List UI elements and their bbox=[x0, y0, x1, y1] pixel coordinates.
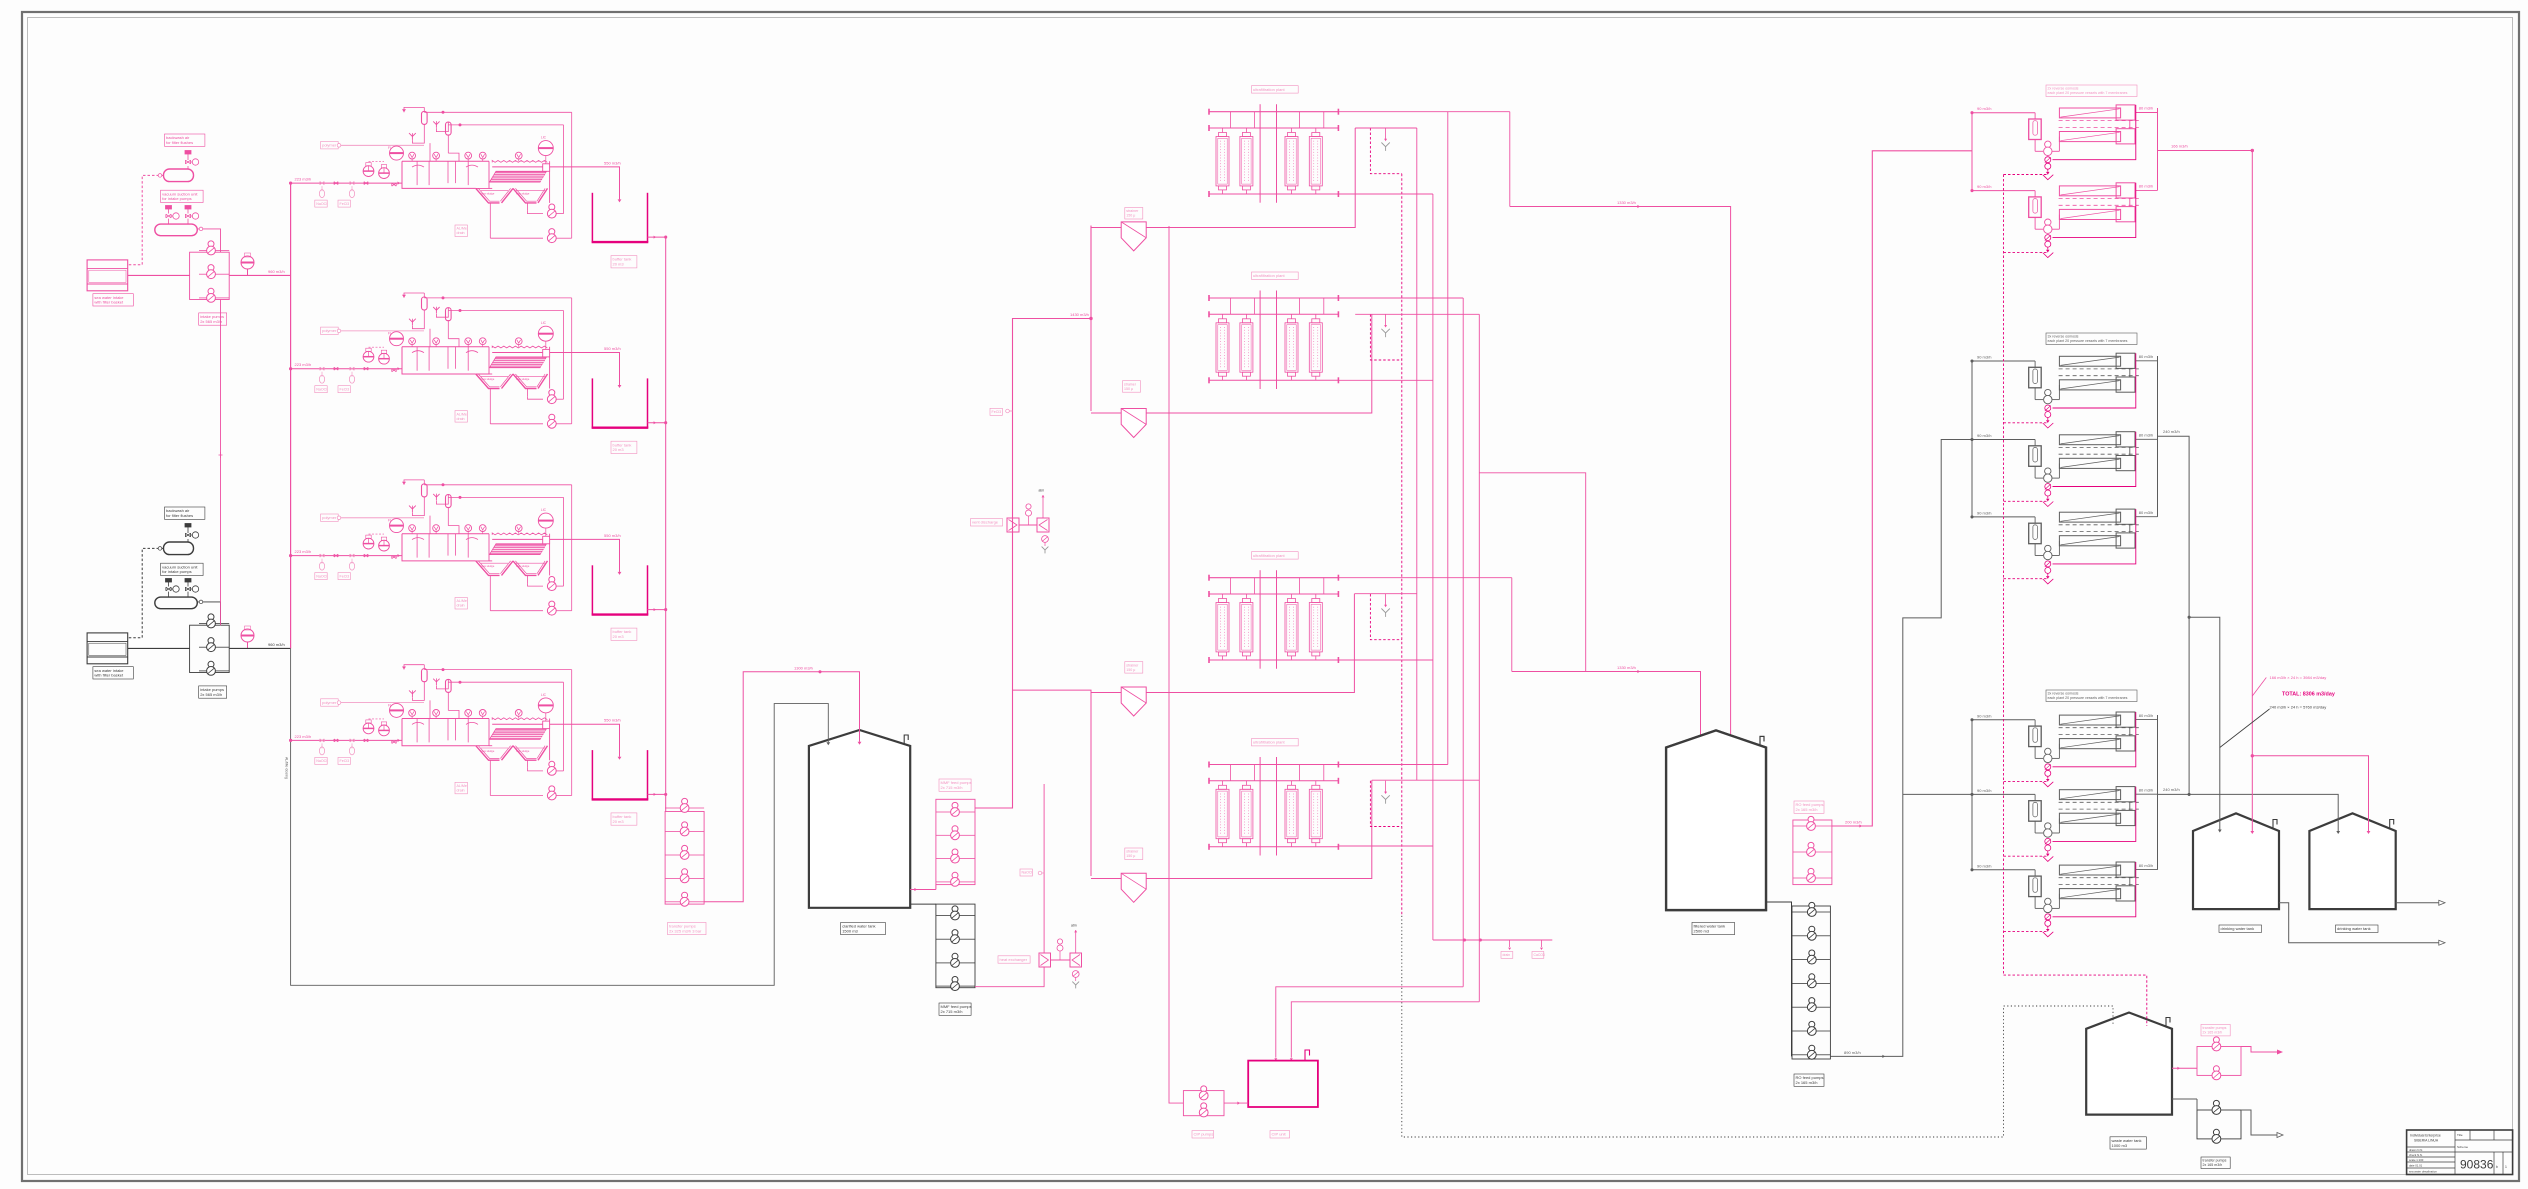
svg-text:20 m3: 20 m3 bbox=[613, 262, 625, 267]
basin inlet flow meter bbox=[390, 332, 404, 346]
svg-text:CaCO3: CaCO3 bbox=[1534, 953, 1545, 957]
permeate out to collector bbox=[2135, 438, 2158, 440]
air buffer vessel for filter flush bbox=[164, 169, 194, 182]
dosing pump unit 1 bbox=[363, 723, 374, 734]
basin inlet flow meter bbox=[390, 519, 404, 533]
permeate out to collector bbox=[2135, 516, 2158, 518]
UF interconnect bbox=[1479, 473, 1585, 672]
wire riser to strainer2 bbox=[1091, 412, 1121, 414]
concentrate wire bbox=[2053, 712, 2136, 767]
concentrate control valves bbox=[2045, 914, 2051, 920]
air buffer vessel for filter flush bbox=[164, 542, 194, 555]
UF concentrate dashed branch bbox=[1370, 128, 1401, 174]
svg-text:Title: Title bbox=[2457, 1133, 2463, 1137]
concentrate funnel bbox=[2047, 926, 2049, 929]
permeate collector dashes bbox=[2059, 446, 2139, 448]
recycle header 1 bbox=[424, 484, 571, 486]
svg-text:atm: atm bbox=[1071, 924, 1077, 928]
flotation scraper zigzag bbox=[492, 718, 547, 720]
svg-text:drinking water tank: drinking water tank bbox=[2221, 926, 2255, 931]
intake discharge main bbox=[229, 647, 290, 649]
svg-text:for intake pumps: for intake pumps bbox=[162, 569, 192, 574]
svg-text:ultrafiltration plant: ultrafiltration plant bbox=[1253, 553, 1285, 558]
UF top header bbox=[1209, 111, 1338, 113]
flotation tank right wall bbox=[549, 167, 551, 203]
RO feed black discharge trunk bbox=[1830, 440, 1972, 1057]
intake flow meter bbox=[241, 256, 254, 269]
high pressure pump bbox=[2034, 466, 2036, 478]
cartridge filter bbox=[2029, 801, 2042, 822]
svg-text:max sludge: max sludge bbox=[481, 192, 495, 196]
recycle header 2 bbox=[448, 124, 563, 126]
concentrate funnel bbox=[2047, 418, 2049, 421]
UF concentrate dashed branch bbox=[1370, 781, 1401, 827]
buffer tank (open top) bbox=[591, 565, 593, 614]
svg-text:550 m3/h: 550 m3/h bbox=[604, 346, 621, 351]
svg-text:90 m3/h: 90 m3/h bbox=[1977, 355, 1991, 360]
buffer tank outlet wire bbox=[648, 236, 666, 238]
svg-text:2x 715 m3/h: 2x 715 m3/h bbox=[941, 785, 963, 790]
polymer dosing label bbox=[321, 142, 339, 149]
svg-text:drinking water tank: drinking water tank bbox=[2337, 926, 2371, 931]
membrane vessel 1 bbox=[2059, 790, 2120, 800]
UF top header bbox=[1209, 297, 1338, 299]
sea water intake box bbox=[87, 260, 128, 291]
membrane vessel 2 bbox=[2059, 132, 2120, 142]
concentrate wire bbox=[2053, 432, 2136, 487]
label waste transfer pumps pink bbox=[2201, 1024, 2230, 1036]
NaOCl dosing at backwash riser bbox=[1020, 869, 1032, 876]
RO train feed wire bbox=[1972, 190, 2035, 192]
svg-text:for filter flushes: for filter flushes bbox=[166, 140, 193, 145]
high pressure pump bbox=[2034, 388, 2036, 400]
MMF feed pumps black (4x) bbox=[952, 906, 958, 912]
strainer 3 wires bbox=[1091, 692, 1121, 694]
concentrate dashed to waste header bbox=[2004, 856, 2048, 861]
concentrate wire bbox=[2053, 787, 2136, 842]
UF center distribution pipes bbox=[1259, 757, 1261, 856]
polymer feed wire bbox=[341, 702, 424, 704]
vessel interconnect bbox=[2129, 198, 2131, 207]
sludge pump 1 bbox=[549, 390, 555, 396]
svg-text:max sludge: max sludge bbox=[516, 749, 530, 753]
svg-text:FI: FI bbox=[388, 332, 391, 336]
sludge hopper 2 bbox=[513, 374, 537, 389]
dosing point FeCl3 bbox=[350, 182, 354, 185]
flotation scraper zigzag bbox=[492, 346, 547, 348]
svg-text:CIP unit: CIP unit bbox=[1272, 1132, 1287, 1137]
svg-text:166 m3/h × 24 h = 3984 m3/day: 166 m3/h × 24 h = 3984 m3/day bbox=[2270, 675, 2327, 680]
saturator feed drop bbox=[429, 700, 431, 718]
vacuum unit valves bbox=[166, 206, 172, 210]
UF top header bbox=[1209, 577, 1338, 579]
svg-text:max sludge: max sludge bbox=[516, 192, 530, 196]
UF second header bbox=[1209, 780, 1338, 782]
transfer discharge to clarified tank bbox=[704, 672, 859, 902]
sea water intake box bbox=[87, 633, 128, 664]
svg-text:LIC: LIC bbox=[541, 693, 547, 697]
saturation vessel 1 bbox=[422, 669, 428, 682]
svg-text:AL/Me: AL/Me bbox=[457, 412, 467, 416]
svg-text:550 m3/h: 550 m3/h bbox=[604, 533, 621, 538]
concentrate funnel bbox=[2047, 169, 2049, 172]
svg-text:3x reverse osmosis: 3x reverse osmosis bbox=[2048, 335, 2079, 339]
vacuum buffer vessel bbox=[155, 597, 198, 609]
sludge pump 1 bbox=[549, 577, 555, 583]
svg-text:polymer: polymer bbox=[322, 143, 337, 148]
UF product line lower to filtered tank bbox=[1511, 578, 1513, 672]
svg-text:1: 1 bbox=[2505, 1165, 2507, 1169]
buffer tank (open top) bbox=[591, 750, 593, 799]
CIP supply wires bbox=[1276, 987, 1463, 1058]
recycle right risers bbox=[563, 497, 565, 586]
buffer tank outlet wire bbox=[648, 609, 666, 611]
svg-text:NaOCl: NaOCl bbox=[316, 387, 327, 391]
svg-text:90 m3/h: 90 m3/h bbox=[1977, 433, 1991, 438]
RO pink product wire bbox=[2158, 150, 2253, 152]
transfer pump bank from buffer tanks (frame) bbox=[665, 812, 704, 905]
saturator feed drop bbox=[429, 329, 431, 347]
svg-text:1500 m3: 1500 m3 bbox=[842, 928, 858, 933]
flotation scraper zigzag bbox=[492, 161, 547, 163]
svg-text:polymer: polymer bbox=[322, 515, 337, 520]
saturation vessel 2 bbox=[446, 679, 452, 692]
svg-text:150 μ: 150 μ bbox=[1126, 668, 1135, 672]
svg-text:2x reverse osmosis: 2x reverse osmosis bbox=[2048, 87, 2079, 91]
svg-text:2500 m3: 2500 m3 bbox=[1694, 928, 1710, 933]
treated water outlet to buffer tank bbox=[550, 167, 620, 200]
svg-text:LIC: LIC bbox=[541, 508, 547, 512]
concentrate funnel bbox=[2047, 851, 2049, 854]
waste black discharge bbox=[2241, 1110, 2277, 1135]
lamella pack (hatched) bbox=[490, 544, 547, 555]
UF feed main riser bbox=[975, 226, 1091, 808]
high pressure pump bbox=[2034, 544, 2036, 556]
svg-text:heat exchanger: heat exchanger bbox=[1000, 957, 1028, 962]
inline valve 1 bbox=[334, 367, 338, 370]
svg-text:LIC: LIC bbox=[541, 136, 547, 140]
svg-text:AL/Me: AL/Me bbox=[457, 599, 467, 603]
concentrate control valves bbox=[2045, 235, 2051, 241]
flotation water level line bbox=[492, 166, 543, 168]
flotation tank right wall bbox=[549, 353, 551, 389]
hopper drain wires bbox=[489, 575, 491, 610]
MMF feed pumps pink (4x) bbox=[952, 802, 958, 808]
svg-text:223 m3/h: 223 m3/h bbox=[295, 177, 312, 182]
svg-text:200 m3/h: 200 m3/h bbox=[1845, 820, 1862, 825]
RO train feed wire bbox=[1972, 719, 2035, 721]
inline valve 2 bbox=[364, 367, 368, 370]
svg-text:890 m3/h: 890 m3/h bbox=[1844, 1050, 1861, 1055]
svg-text:80 m3/h: 80 m3/h bbox=[2139, 354, 2153, 359]
svg-text:max sludge: max sludge bbox=[481, 749, 495, 753]
label buffer tank bbox=[611, 813, 637, 825]
svg-text:80 m3/h: 80 m3/h bbox=[2139, 433, 2153, 438]
vessel interconnect bbox=[2129, 447, 2131, 456]
svg-text:223 m3/h: 223 m3/h bbox=[295, 549, 312, 554]
svg-text:1000 m3: 1000 m3 bbox=[2112, 1143, 2128, 1148]
polymer feed wire bbox=[341, 144, 424, 146]
UF plant label bbox=[1252, 552, 1299, 559]
svg-text:80 m3/h: 80 m3/h bbox=[2139, 106, 2153, 111]
intake suction line bbox=[128, 647, 190, 649]
waste transfer pumps pink (frame) bbox=[2197, 1047, 2241, 1076]
concentrate funnel bbox=[2047, 247, 2049, 250]
permeate collector dashes bbox=[2059, 198, 2139, 200]
branch to drinking tank 1 bbox=[2189, 617, 2220, 829]
train feed pipe bbox=[291, 555, 402, 557]
svg-text:2x 165 m3/h: 2x 165 m3/h bbox=[1796, 1080, 1818, 1085]
saturation vessel 1 bbox=[422, 111, 428, 124]
basin internal walls and mixers bbox=[416, 534, 418, 558]
svg-text:550 m3/h: 550 m3/h bbox=[604, 160, 621, 165]
waste black inlet bbox=[2172, 1098, 2197, 1100]
sludge hopper 1 bbox=[476, 188, 500, 203]
svg-text:ultrafiltration plant: ultrafiltration plant bbox=[1253, 87, 1285, 92]
vessel interconnect bbox=[2129, 877, 2131, 886]
svg-text:20 m3: 20 m3 bbox=[613, 819, 625, 824]
hopper drain wires bbox=[489, 760, 491, 795]
product split to tank 2 bbox=[2252, 756, 2368, 831]
train feed pipe bbox=[291, 368, 402, 370]
wire vessel to intake box (dashed) bbox=[128, 175, 164, 264]
label waste water tank bbox=[2110, 1137, 2146, 1149]
recycle right risers bbox=[563, 125, 565, 214]
concentrate control valves bbox=[2045, 405, 2051, 411]
RO pink group label bbox=[2046, 85, 2137, 97]
sludge hopper 1 bbox=[476, 561, 500, 576]
concentrate dashed to waste header bbox=[2004, 175, 2048, 180]
clarified water tank bbox=[809, 730, 910, 908]
svg-text:vent discharge: vent discharge bbox=[972, 520, 999, 525]
svg-text:each plant 20 pressure vessels: each plant 20 pressure vessels with 7 me… bbox=[2048, 339, 2128, 343]
svg-text:223 m3/h: 223 m3/h bbox=[295, 362, 312, 367]
outlet box bbox=[543, 536, 550, 544]
hopper drain wires bbox=[489, 389, 491, 424]
RO gray group2 feed header bbox=[1971, 361, 1973, 517]
RO feed pumps black (7x) bbox=[1809, 902, 1815, 908]
basin inlet flow meter bbox=[390, 146, 404, 160]
permeate out to collector bbox=[2135, 869, 2158, 871]
RO feed pump bank black (frame) bbox=[1792, 906, 1830, 1059]
membrane vessel 1 bbox=[2059, 186, 2120, 196]
heat exchanger vent bbox=[1075, 930, 1077, 953]
inline valve 1 bbox=[334, 554, 338, 557]
svg-text:223 m3/h: 223 m3/h bbox=[295, 734, 312, 739]
sludge pump 1 bbox=[549, 761, 555, 767]
membrane vessel 2 bbox=[2059, 380, 2120, 390]
membrane vessel 2 bbox=[2059, 209, 2120, 219]
UF top header bbox=[1209, 764, 1338, 766]
label backwash air for filter flushes bbox=[165, 134, 205, 146]
saturation vessel 1 bbox=[422, 297, 428, 310]
svg-text:1330 m3/h: 1330 m3/h bbox=[1617, 200, 1636, 205]
label air sludge bbox=[455, 411, 467, 423]
svg-text:atm: atm bbox=[1039, 489, 1045, 493]
buffer tank collector riser bbox=[665, 237, 667, 811]
svg-text:90 m3/h: 90 m3/h bbox=[1977, 713, 1991, 718]
RO gray group 2 label bbox=[2046, 333, 2137, 345]
level transmitter LIC bbox=[538, 141, 553, 156]
svg-text:FeCl3: FeCl3 bbox=[340, 202, 350, 206]
svg-text:80 m3/h: 80 m3/h bbox=[2139, 184, 2153, 189]
tank outlet to RO pumps bbox=[1766, 902, 1792, 1056]
UF membrane modules (4x) bbox=[1216, 323, 1229, 372]
svg-text:polymer: polymer bbox=[322, 328, 337, 333]
heat exchanger valves bbox=[1057, 945, 1063, 951]
label transfer pumps bbox=[668, 922, 706, 934]
UF center distribution pipes bbox=[1259, 291, 1261, 390]
tank1 outfall wire bbox=[2279, 903, 2439, 943]
cartridge filter bbox=[2029, 876, 2042, 897]
concentrate wire bbox=[2053, 509, 2136, 564]
membrane vessel 2 bbox=[2059, 889, 2120, 899]
drain outfall 2 bbox=[1541, 940, 1543, 947]
UF concentrate dashed branch bbox=[1370, 594, 1401, 640]
saturator loop wires 1 bbox=[412, 310, 424, 329]
wire vacuum vessel to intake pump bank bbox=[197, 229, 220, 252]
recycle header 1 bbox=[424, 111, 571, 113]
UF drain header bbox=[1433, 939, 1552, 941]
CIP pump discharge bbox=[1224, 1102, 1248, 1104]
svg-text:max sludge: max sludge bbox=[516, 564, 530, 568]
svg-text:90 m3/h: 90 m3/h bbox=[1977, 788, 1991, 793]
svg-text:240 m3/h × 24 h = 5760 m3/day: 240 m3/h × 24 h = 5760 m3/day bbox=[2270, 705, 2327, 710]
svg-text:strainer: strainer bbox=[1126, 663, 1139, 667]
sludge hopper 2 bbox=[513, 188, 537, 203]
permeate collector dashes bbox=[2059, 368, 2139, 370]
dosing pump unit 2 bbox=[379, 725, 390, 736]
RO gray group2 product wire bbox=[2158, 436, 2190, 794]
membrane vessel 1 bbox=[2059, 108, 2120, 118]
RO gray group3 feed header bbox=[1971, 720, 1973, 870]
high pressure pump bbox=[2034, 217, 2036, 229]
saturator feed drop bbox=[429, 143, 431, 161]
svg-text:drain: drain bbox=[457, 789, 465, 793]
recycle / drain line black from main riser to clarified tank bbox=[291, 648, 829, 985]
label intake pumps bbox=[199, 313, 227, 325]
concentrate funnel bbox=[2047, 776, 2049, 779]
recycle header 2 bbox=[448, 681, 563, 683]
backwash air valve set bbox=[185, 151, 191, 155]
dosing point FeCl3 bbox=[350, 367, 354, 370]
RO feed pumps pink (3x) bbox=[1808, 816, 1814, 822]
svg-text:1430 m3/h: 1430 m3/h bbox=[1070, 312, 1089, 317]
sludge discharge wires bbox=[556, 585, 563, 587]
recycle header 2 bbox=[448, 496, 563, 498]
svg-text:FeCl3: FeCl3 bbox=[340, 759, 350, 763]
sludge discharge wires bbox=[556, 213, 563, 215]
label intake pumps bbox=[199, 686, 227, 698]
waste transfer pumps black bbox=[2213, 1100, 2219, 1106]
intake suction line bbox=[128, 274, 190, 276]
svg-text:drain: drain bbox=[457, 604, 465, 608]
waste pink inlet bbox=[2172, 1067, 2197, 1069]
intake pump bank frame bbox=[190, 252, 230, 299]
intake pumps (3x) bbox=[208, 241, 214, 247]
UF funnel bbox=[1385, 314, 1387, 326]
flotation tank shell bbox=[476, 161, 489, 188]
RO train feed wire bbox=[1972, 112, 2035, 114]
train feed pipe bbox=[291, 739, 402, 741]
label drinking water tank 2 bbox=[2336, 925, 2379, 932]
label vacuum suction unit for intake pumps bbox=[161, 190, 204, 202]
treated water outlet to buffer tank bbox=[550, 724, 620, 757]
tank suction pink bbox=[910, 889, 936, 891]
permeate out to collector bbox=[2135, 189, 2158, 191]
label waste transfer pumps black bbox=[2201, 1157, 2230, 1169]
label MMF feed pumps pink bbox=[939, 779, 971, 791]
waste water tank bbox=[2086, 1013, 2172, 1115]
waste transfer pumps pink bbox=[2213, 1037, 2219, 1043]
RO gray group2 permeate collector bbox=[2157, 356, 2159, 517]
concentrate dashed main bbox=[2003, 175, 2005, 976]
svg-text:90 m3/h: 90 m3/h bbox=[1977, 510, 1991, 515]
drain outfall 1 bbox=[1509, 940, 1511, 947]
svg-text:20 m3: 20 m3 bbox=[613, 447, 625, 452]
svg-text:80 m3/h: 80 m3/h bbox=[2139, 510, 2153, 515]
sludge hopper 1 bbox=[476, 374, 500, 389]
vessel interconnect bbox=[2129, 802, 2131, 811]
svg-text:3x reverse osmosis: 3x reverse osmosis bbox=[2048, 692, 2079, 696]
svg-text:transfer pumps: transfer pumps bbox=[2203, 1026, 2227, 1030]
basin internal walls and mixers bbox=[416, 719, 418, 743]
UF membrane modules (4x) bbox=[1216, 603, 1229, 652]
dosing pump unit 1 bbox=[363, 351, 374, 362]
production note pink bbox=[2252, 678, 2266, 697]
outlet box bbox=[543, 164, 550, 172]
strainer 2 outlet to UF plant 2 bbox=[1146, 314, 1372, 413]
hopper drain wires bbox=[489, 203, 491, 238]
concentrate dashed to waste header bbox=[2004, 579, 2048, 584]
svg-text:150 μ: 150 μ bbox=[1126, 854, 1135, 858]
lamella pack (hatched) bbox=[490, 729, 547, 740]
flotation scraper zigzag bbox=[492, 533, 547, 535]
level transmitter LIC bbox=[538, 513, 553, 528]
filtered water tank bbox=[1666, 730, 1766, 910]
sludge discharge wires bbox=[556, 770, 563, 772]
permeate out to collector bbox=[2135, 112, 2158, 114]
polymer dosing label bbox=[321, 514, 339, 521]
permeate collector dashes bbox=[2059, 877, 2139, 879]
permeate collector dashes bbox=[2059, 727, 2139, 729]
concentrate dashed to waste header bbox=[2004, 423, 2048, 428]
concentrate control valves bbox=[2045, 764, 2051, 770]
train feed pipe bbox=[291, 182, 402, 184]
flotation water level line bbox=[492, 723, 543, 725]
svg-text:NaOCl: NaOCl bbox=[316, 574, 327, 578]
drinking water tank 2 bbox=[2309, 813, 2395, 909]
recycle header 2 bbox=[448, 310, 563, 312]
svg-text:1300 m3/h: 1300 m3/h bbox=[794, 665, 813, 670]
svg-text:polymer: polymer bbox=[322, 700, 337, 705]
svg-text:550 m3/h: 550 m3/h bbox=[604, 718, 621, 723]
inline valve 2 bbox=[364, 739, 368, 742]
UF feed lower branch bbox=[1013, 690, 1092, 876]
concentrate dashed to waste header bbox=[2004, 782, 2048, 787]
MMF feed pump bank pink (frame) bbox=[936, 799, 975, 884]
basin top motors bbox=[409, 152, 416, 159]
flotation water level line bbox=[492, 352, 543, 354]
label CIP unit bbox=[1270, 1131, 1290, 1138]
svg-text:drain: drain bbox=[1503, 953, 1511, 957]
svg-text:ultrafiltration plant: ultrafiltration plant bbox=[1253, 740, 1285, 745]
UF second header bbox=[1209, 127, 1338, 129]
svg-text:20 m3: 20 m3 bbox=[613, 634, 625, 639]
svg-text:150 μ: 150 μ bbox=[1126, 214, 1135, 218]
polymer feed wire bbox=[341, 517, 424, 519]
svg-text:2x 325 m3/h 3 bar: 2x 325 m3/h 3 bar bbox=[669, 928, 702, 933]
